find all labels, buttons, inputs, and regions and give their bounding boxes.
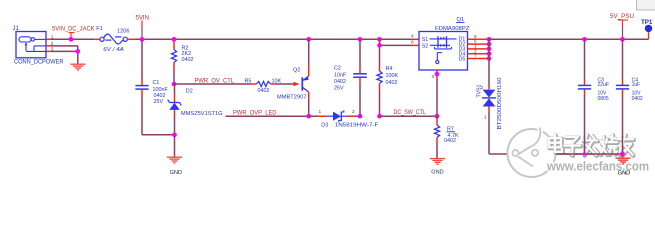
wire vertical to ground [77, 46, 79, 64]
Q1 pin 7 D5 [468, 58, 490, 60]
MOSFET Q1 FDMA908PZ [419, 17, 470, 70]
J1 pin 2 [46, 45, 52, 47]
svg-text:www.elecfans.com: www.elecfans.com [546, 158, 649, 173]
ground (C4) [622, 154, 624, 158]
svg-text:C2: C2 [334, 66, 341, 72]
TVS diode TVS1 [477, 59, 504, 130]
J1 pin 3 [46, 50, 52, 52]
svg-text:0402: 0402 [334, 79, 346, 85]
svg-text:MMBT2907: MMBT2907 [277, 95, 307, 101]
svg-text:MMSZ5V1ST1G: MMSZ5V1ST1G [181, 111, 223, 117]
svg-text:5V_PSU: 5V_PSU [610, 13, 634, 20]
junction Q2 collector [306, 114, 311, 119]
capacitor C1 [135, 39, 168, 135]
junction C3 gnd [583, 152, 587, 156]
junction R4 bottom [377, 114, 382, 119]
ground (C4) overlay [622, 154, 624, 158]
svg-text:1: 1 [484, 114, 487, 120]
svg-text:2: 2 [352, 109, 355, 115]
test point TP1 [641, 19, 653, 39]
junction C2 bottom [358, 114, 363, 119]
ground (D2) [167, 156, 182, 158]
svg-text:TVS1: TVS1 [477, 84, 483, 97]
wire R5 to Q2 base [271, 83, 277, 85]
gray corner box [637, 0, 655, 10]
svg-text:FDMA908PZ: FDMA908PZ [435, 26, 470, 32]
junction C4 gnd [620, 152, 625, 157]
resistor R2 [171, 39, 193, 84]
wire pin2 to ground [52, 45, 78, 47]
junction Q2 [306, 37, 311, 42]
svg-text:D2: D2 [186, 89, 193, 95]
wire TVS to ground line [488, 112, 490, 154]
capacitor C4 [616, 39, 643, 154]
junction gate [435, 72, 440, 77]
svg-text:4: 4 [411, 34, 414, 40]
svg-text:C1: C1 [153, 80, 160, 86]
capacitor C3 [578, 39, 609, 154]
svg-text:S1: S1 [422, 37, 428, 43]
watermark logo circle [508, 128, 556, 178]
ground (R7) [430, 158, 445, 160]
Q1 pin 3 gate [436, 70, 438, 78]
wire PWR_OV_CTL [174, 83, 251, 85]
svg-text:0402: 0402 [182, 57, 194, 63]
connector J1 [13, 26, 65, 66]
wire ground line over watermark [556, 153, 623, 155]
resistor R7 [434, 116, 459, 158]
svg-text:0402: 0402 [444, 138, 456, 144]
wire 5V_PSU rail [489, 38, 649, 40]
Q1 pin 2 D4 [468, 53, 490, 55]
svg-text:D3: D3 [321, 122, 328, 128]
wire 5VIN rail [136, 38, 413, 40]
watermark text 电子发烧友 [549, 135, 634, 156]
junction C2 [358, 37, 363, 42]
svg-text:6V / 4A: 6V / 4A [103, 47, 124, 53]
junction 5V_PSU label [620, 37, 625, 42]
svg-text:25V: 25V [154, 99, 164, 105]
junction net label [69, 37, 74, 42]
svg-text:10nF: 10nF [334, 72, 347, 78]
wire to ground [174, 135, 176, 157]
wire S2 row [380, 44, 413, 46]
junction D2/C1 [172, 132, 177, 137]
svg-text:GND: GND [431, 170, 443, 176]
diode D3 [319, 109, 380, 128]
junction pin3/gnd [75, 49, 80, 54]
wire ground line [489, 153, 623, 155]
Q1 pin 1 D3 [468, 48, 490, 50]
wire S1 row [412, 38, 419, 40]
svg-text:1: 1 [319, 109, 322, 115]
svg-text:0402: 0402 [258, 88, 270, 94]
J1 pin 1 [46, 38, 52, 40]
junction C1 [140, 37, 145, 42]
wire Q2 collector down [308, 92, 310, 99]
svg-text:R4: R4 [386, 66, 393, 72]
junction R4 top S2 [377, 43, 382, 48]
zener diode D2 [168, 84, 223, 135]
wire gate to DC_SW_CTL [436, 78, 438, 117]
svg-text:7: 7 [474, 53, 477, 59]
svg-text:100K: 100K [386, 73, 399, 79]
svg-text:1206: 1206 [117, 29, 129, 35]
svg-text:0402: 0402 [632, 96, 643, 102]
svg-text:GND: GND [618, 170, 630, 176]
svg-text:BT2500D500H160: BT2500D500H160 [497, 77, 503, 129]
svg-text:F1: F1 [96, 26, 103, 32]
wire C1 to D2 gnd [142, 134, 175, 136]
junction PWR_OV_CTL [172, 82, 177, 87]
wire to D3 [309, 115, 317, 117]
wire D3 to C2 [355, 115, 361, 117]
resistor R4 [377, 39, 399, 116]
junction R2 [172, 37, 177, 42]
junction R4 [377, 37, 382, 42]
resistor R5 [245, 78, 282, 94]
wire DC_SW_CTL [380, 115, 438, 117]
svg-text:0805: 0805 [598, 96, 609, 102]
svg-text:D5: D5 [459, 57, 466, 63]
svg-text:22uF: 22uF [598, 82, 609, 88]
Q1 pin 6 D2 [468, 43, 490, 45]
svg-text:1N5819HW-7-F: 1N5819HW-7-F [335, 122, 379, 128]
svg-text:1uF: 1uF [632, 82, 641, 88]
junction DC_SW_CTL [435, 114, 440, 119]
capacitor C2 [334, 39, 367, 116]
wire PWR_OVP_LED [226, 115, 309, 117]
junction C3 [582, 37, 587, 42]
svg-text:R5: R5 [245, 78, 252, 84]
fuse F1 [94, 26, 135, 53]
svg-text:8: 8 [411, 40, 414, 46]
svg-text:25V: 25V [334, 86, 344, 92]
svg-text:J1: J1 [13, 26, 20, 32]
ground (J1) [71, 63, 86, 65]
svg-text:S2: S2 [422, 43, 428, 49]
wire drain bus [488, 39, 490, 58]
junction C3 gnd overlay [583, 152, 587, 156]
Q1 pin 5 D1 [468, 38, 490, 40]
svg-text:DC_SW_CTL: DC_SW_CTL [394, 109, 427, 116]
wire J1 pin1 to fuse [52, 38, 95, 40]
svg-text:GND: GND [170, 170, 182, 176]
svg-text:Q2: Q2 [293, 68, 300, 74]
wire pin3 to ground [52, 50, 78, 52]
wire Q2 emitter to rail [308, 39, 310, 65]
svg-text:3: 3 [432, 74, 435, 80]
junction C4 gnd overlay [620, 152, 625, 157]
svg-text:5VIN_DC_JACK: 5VIN_DC_JACK [52, 25, 95, 32]
svg-text:0402: 0402 [386, 80, 398, 86]
transistor Q2 [277, 68, 309, 101]
svg-text:CONN_DCPOWER: CONN_DCPOWER [14, 60, 64, 66]
